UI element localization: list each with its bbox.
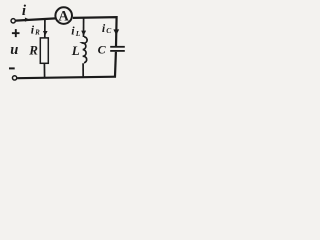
svg-text:C: C [98,43,107,57]
capacitor C bottom plate [110,50,125,52]
svg-text:R: R [34,28,40,36]
wire (resistor branch, top) [44,19,46,38]
current arrow iR [43,31,48,36]
terminal (top left, + terminal) [11,19,15,23]
wire (inductor branch, top) [83,18,85,38]
current arrow i (on top wire) [25,18,30,22]
svg-text:u: u [10,42,18,58]
wire (bottom wire) [17,77,116,79]
wire (top wire, terminal to ammeter) [16,18,56,20]
plus sign [12,32,20,34]
wire (inductor branch, bottom) [82,63,84,78]
svg-text:R: R [28,43,38,58]
wire (capacitor to bottom-right corner) [114,52,117,78]
wire (resistor branch, bottom) [43,63,45,78]
current arrow iL [81,31,86,36]
capacitor C top plate [110,46,125,48]
svg-text:A: A [58,8,69,24]
ammeter A1 [55,7,72,24]
wire (ammeter to top-right corner) [73,17,117,46]
svg-text:L: L [75,29,81,38]
svg-text:L: L [71,43,80,58]
terminal (bottom left, - terminal) [12,76,16,80]
inductor L coil [82,37,87,63]
current arrow iC (on capacitor branch) [113,29,119,35]
minus sign [9,67,15,69]
resistor R body [40,38,48,63]
